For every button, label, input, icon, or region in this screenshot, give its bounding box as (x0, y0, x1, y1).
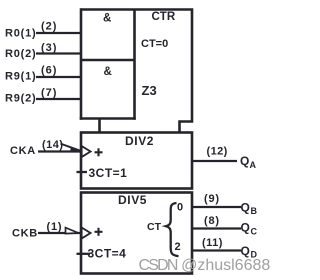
svg-text:R9(1): R9(1) (5, 71, 37, 83)
internal stub 3CT=1 (77, 171, 88, 173)
wire CKA pin 14 (38, 150, 80, 152)
svg-text:(1): (1) (47, 221, 63, 233)
svg-text:R0(2): R0(2) (5, 48, 37, 60)
svg-text:3CT=1: 3CT=1 (89, 166, 128, 180)
svg-text:Z3: Z3 (142, 83, 157, 98)
svg-text:(7): (7) (41, 87, 57, 99)
svg-text:(11): (11) (202, 237, 223, 249)
svg-text:Q: Q (241, 201, 250, 215)
svg-text:Q: Q (241, 244, 250, 258)
svg-text:Q: Q (240, 154, 249, 168)
plus sign CKB (95, 228, 103, 236)
CTR left edge (80, 8, 83, 120)
svg-text:(9): (9) (204, 193, 220, 205)
svg-text:(6): (6) (41, 65, 57, 77)
wire QD pin 11 (192, 249, 241, 251)
svg-text:A: A (250, 160, 257, 170)
svg-text:(3): (3) (41, 42, 57, 54)
AND sub-block right edge (133, 10, 136, 120)
svg-text:CKA: CKA (10, 145, 36, 157)
svg-text:DIV5: DIV5 (118, 193, 147, 207)
arrowhead on CKB wire (66, 228, 79, 234)
svg-text:R9(2): R9(2) (5, 93, 37, 105)
wire R9(2) pin 7 (36, 98, 81, 100)
svg-text:&: & (103, 12, 111, 24)
svg-text:Q: Q (241, 221, 250, 235)
AND sub-block bottom edge (80, 117, 136, 120)
svg-text:2: 2 (175, 241, 181, 253)
wire QB pin 9 (192, 206, 241, 208)
flip-flop block DIV2 (81, 133, 192, 189)
svg-text:B: B (251, 206, 258, 216)
wire QC pin 8 (192, 227, 241, 229)
svg-text:3CT=4: 3CT=4 (88, 247, 127, 261)
svg-text:R0(1): R0(1) (5, 28, 37, 40)
svg-text:CSDN @zhusl6688: CSDN @zhusl6688 (139, 257, 271, 274)
plus sign CKA (95, 148, 103, 156)
wire CKB pin 1 (38, 232, 80, 234)
wire from AND block to DIV2 (98, 119, 101, 134)
wire R9(1) pin 6 (36, 76, 81, 78)
svg-text:(14): (14) (42, 139, 64, 151)
svg-text:(12): (12) (207, 146, 228, 158)
svg-text:&: & (104, 66, 112, 78)
internal stub 3CT=4 (77, 253, 91, 255)
wire QA pin 12 (192, 160, 237, 162)
svg-text:DIV2: DIV2 (125, 134, 154, 148)
svg-text:CTR: CTR (152, 11, 176, 23)
svg-text:(8): (8) (204, 215, 220, 227)
wire R0(2) pin 3 (36, 52, 81, 54)
svg-text:0: 0 (177, 202, 183, 214)
dynamic input triangle CKB (82, 228, 91, 239)
dynamic input triangle CKA (82, 146, 91, 157)
svg-text:CKB: CKB (12, 228, 38, 240)
counter block DIV5 (81, 193, 192, 274)
svg-text:CT: CT (147, 221, 162, 233)
counter block CTR outline with bottom-right notch (81, 10, 192, 134)
brace for CT bits 0..2 (166, 203, 179, 256)
wire R0(1) pin 2 (36, 32, 81, 34)
svg-text:CT=0: CT=0 (141, 38, 168, 50)
divider between AND cells (81, 59, 135, 62)
svg-text:C: C (251, 227, 258, 237)
svg-text:(2): (2) (41, 21, 57, 33)
arrowhead on CKA wire (61, 144, 81, 151)
